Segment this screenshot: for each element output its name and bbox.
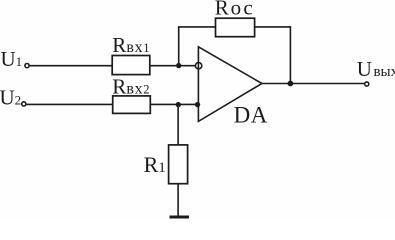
wire U2 input to Rвх2 <box>27 103 113 105</box>
svg-text:Rвх1: Rвх1 <box>112 33 149 57</box>
resistor Roc <box>216 18 255 37</box>
wire feedback right vertical <box>289 26 291 83</box>
ground <box>170 216 190 219</box>
wire R1 branch down <box>177 104 179 144</box>
resistor R1 <box>169 145 188 184</box>
wire feedback top right <box>255 26 291 28</box>
svg-text:U2: U2 <box>0 85 21 109</box>
junction feedback node on U1 wire <box>176 63 181 68</box>
svg-text:Uвых: Uвых <box>357 57 395 81</box>
wire R1 to ground <box>177 184 179 217</box>
wire output <box>262 83 365 85</box>
terminal U2 <box>22 102 26 106</box>
wire feedback top left <box>178 26 216 28</box>
svg-text:R1: R1 <box>144 152 166 177</box>
terminal Uвых <box>365 82 369 86</box>
wire feedback left vertical <box>178 27 180 66</box>
junction R1 node on U2 wire <box>176 102 181 107</box>
wire U1 input to Rвх1 <box>30 65 113 67</box>
wire Rвх2 to non-inverting input <box>150 103 198 105</box>
wire Rвх1 to inverting node <box>150 65 196 67</box>
svg-text:Rвх2: Rвх2 <box>112 74 149 98</box>
inverting input bubble <box>195 62 201 68</box>
op-amp DA triangle <box>198 47 262 122</box>
svg-text:Rос: Rос <box>215 0 255 20</box>
resistor Rвх1 <box>112 56 150 75</box>
resistor Rвх2 <box>113 96 151 114</box>
junction output node <box>288 81 294 87</box>
svg-text:DA: DA <box>234 103 268 128</box>
junction non-inverting input <box>195 102 200 107</box>
svg-text:U1: U1 <box>1 47 23 71</box>
terminal U1 <box>25 64 29 68</box>
